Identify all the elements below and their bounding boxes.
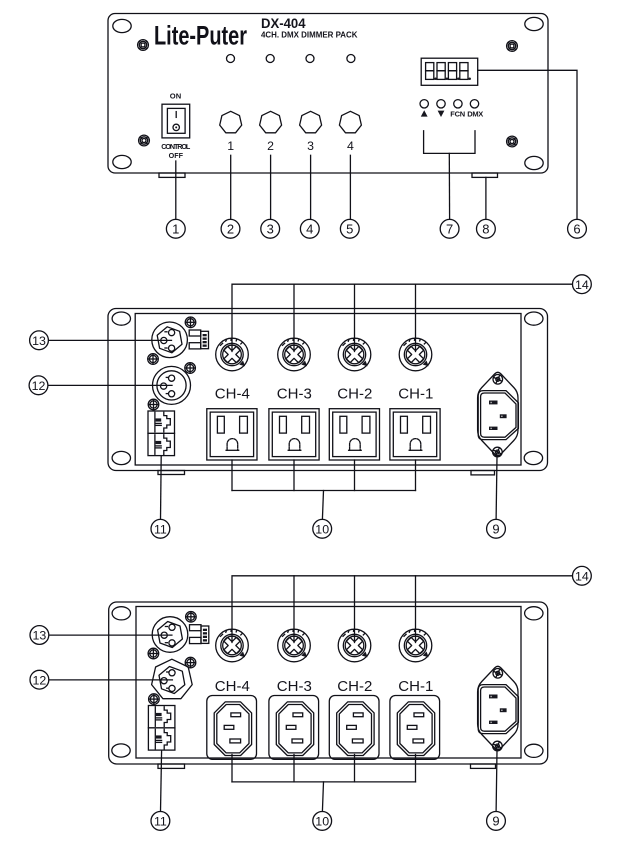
rear right foot tab (471, 764, 496, 768)
svg-text:1: 1 (172, 222, 179, 237)
callout 13 (30, 331, 49, 350)
mounting hole bottom-left (112, 451, 130, 464)
XLR female connector DMX in (152, 659, 193, 699)
svg-text:CH-3: CH-3 (277, 385, 312, 402)
callout 11 (151, 812, 170, 831)
rear left foot tab (158, 764, 185, 768)
callout 10 (313, 519, 332, 538)
svg-text:10: 10 (315, 523, 329, 537)
XLR female screw bottom (149, 694, 160, 705)
mounting hole bottom-right (525, 156, 543, 169)
svg-text:6: 6 (573, 222, 580, 237)
rear panel chassis (NEMA version) (108, 309, 548, 471)
svg-text:9: 9 (492, 814, 499, 829)
front panel left foot tab (159, 173, 185, 177)
channel label CH-2 (337, 678, 372, 695)
DMX terminator block (190, 625, 209, 644)
svg-text:7: 7 (446, 222, 453, 237)
svg-text:14: 14 (575, 570, 589, 584)
fuse F3 (278, 629, 311, 662)
callout 11 (151, 519, 170, 538)
leader line knob 350.4 (349, 155, 351, 219)
push button FCN (454, 100, 462, 108)
channel label CH-2 (337, 385, 372, 402)
svg-text:CH-2: CH-2 (337, 385, 372, 402)
front panel chassis (108, 14, 548, 174)
XLR female connector DMX in (153, 366, 191, 404)
model title DX-404 (261, 16, 306, 31)
knob label 1 (227, 139, 234, 153)
fuse F4 (216, 629, 249, 662)
rear panel recessed face (135, 314, 521, 466)
button group bracket (424, 131, 475, 154)
label triangle up (421, 110, 428, 116)
svg-text:1: 1 (227, 139, 234, 153)
screw top-left (136, 38, 151, 53)
mounting hole top-right (525, 607, 543, 620)
svg-text:2: 2 (227, 222, 234, 237)
XLR male connector DMX out (152, 322, 188, 358)
Lite-Puter logo (154, 21, 247, 51)
svg-text:10: 10 (315, 815, 329, 829)
power switch S1 (162, 104, 190, 138)
callout 3 (261, 219, 280, 238)
svg-text:3: 3 (267, 222, 274, 237)
callout 5 (340, 219, 359, 238)
leader line 8 (485, 177, 487, 219)
label CONTROL (161, 142, 191, 151)
leader line 12 (49, 679, 173, 681)
XLR male connector DMX out (152, 617, 188, 653)
leader line 12 (48, 384, 172, 386)
NEMA outlet CH-1 (390, 409, 440, 460)
DMX terminator block (189, 330, 208, 349)
mounting hole bottom-left (112, 744, 130, 757)
leader line knob 270.6 (270, 155, 272, 219)
fuse F2 (338, 629, 371, 662)
svg-text:4: 4 (306, 222, 313, 237)
svg-text:Lite-Puter: Lite-Puter (154, 21, 247, 51)
7-segment display U1 (421, 58, 478, 85)
svg-text:ON: ON (170, 92, 181, 101)
mounting hole top-left (112, 312, 130, 325)
screw top-right (505, 39, 520, 54)
XLR male screw top (185, 317, 196, 328)
svg-text:13: 13 (33, 629, 47, 643)
svg-text:FCN: FCN (450, 110, 465, 119)
leader line 13 (48, 339, 171, 341)
leader line knob 230.7 (230, 155, 232, 219)
power inlet screw top (492, 668, 503, 679)
svg-text:9: 9 (492, 522, 499, 537)
rear left foot tab (158, 471, 185, 475)
svg-text:CH-4: CH-4 (215, 385, 250, 402)
push button down (437, 100, 445, 108)
label OFF (169, 151, 184, 160)
svg-text:CONTROL: CONTROL (161, 142, 191, 151)
callout 12 (30, 670, 49, 689)
svg-text:8: 8 (482, 222, 489, 237)
dimmer knob 3 (300, 111, 322, 132)
XLR male screw bottom (148, 648, 159, 659)
power inlet (478, 666, 519, 749)
subtitle 4CH. DMX DIMMER PACK (261, 29, 358, 39)
push button up (420, 100, 428, 108)
NEMA outlet CH-4 (207, 409, 257, 460)
channel LED indicator 1 (227, 55, 235, 63)
channel label CH-3 (277, 678, 312, 695)
callout 9 (487, 519, 506, 538)
callout 9 (487, 812, 506, 831)
IEC outlet CH-3 (269, 696, 319, 760)
knob label 3 (307, 139, 314, 153)
NEMA outlet CH-3 (269, 409, 319, 460)
XLR male screw bottom (148, 354, 159, 365)
callout 14 (573, 275, 592, 294)
channel label CH-1 (398, 385, 433, 402)
svg-text:4CH. DMX DIMMER PACK: 4CH. DMX DIMMER PACK (261, 29, 358, 39)
svg-text:3: 3 (307, 139, 314, 153)
mounting hole bottom-right (525, 744, 543, 757)
leader bracket 10 (232, 755, 416, 812)
svg-text:DMX: DMX (467, 110, 483, 119)
label triangle down (438, 111, 445, 117)
svg-text:12: 12 (33, 673, 47, 687)
mounting hole top-right (525, 312, 543, 325)
callout 4 (300, 219, 319, 238)
label DMX (467, 110, 483, 119)
fuse F1 (399, 338, 432, 371)
knob label 2 (267, 139, 274, 153)
channel label CH-1 (398, 678, 433, 695)
XLR female screw top (185, 363, 196, 374)
label FCN (450, 110, 465, 119)
leader line 7 (448, 153, 450, 219)
mounting hole top-left (113, 19, 131, 32)
push button DMX (470, 100, 478, 108)
svg-text:2: 2 (267, 139, 274, 153)
leader line 11 (161, 750, 162, 811)
fuse F4 (216, 338, 249, 371)
svg-text:14: 14 (575, 278, 589, 292)
leader line 6 (478, 70, 577, 219)
channel LED indicator 2 (266, 55, 274, 63)
svg-text:CH-3: CH-3 (277, 678, 312, 695)
IEC outlet CH-4 (207, 696, 257, 760)
rear right foot tab (471, 471, 495, 475)
callout 12 (29, 376, 48, 395)
screw bottom-left (137, 133, 152, 148)
svg-text:12: 12 (32, 379, 46, 393)
XLR female screw top (185, 657, 196, 668)
mounting hole bottom-left (113, 155, 131, 168)
callout 10 (313, 812, 332, 831)
svg-text:CH-2: CH-2 (337, 678, 372, 695)
fuse F3 (278, 338, 311, 371)
svg-text:4: 4 (347, 139, 354, 153)
power inlet screw bottom (492, 446, 503, 457)
channel label CH-3 (277, 385, 312, 402)
svg-text:CH-1: CH-1 (398, 678, 433, 695)
IEC outlet CH-2 (329, 696, 379, 760)
svg-text:11: 11 (154, 815, 167, 829)
callout 6 (568, 219, 587, 238)
leader line 11 (160, 456, 163, 520)
mounting hole bottom-right (524, 451, 542, 464)
XLR male screw top (186, 612, 197, 623)
RJ45 link jacks (148, 706, 175, 751)
power inlet screw top (492, 374, 503, 385)
callout 13 (30, 626, 49, 645)
power inlet (478, 372, 519, 455)
callout 14 (573, 566, 592, 585)
RJ45 link jacks (148, 411, 175, 456)
fuse F1 (399, 629, 432, 662)
leader line 14 (232, 576, 573, 643)
dimmer knob 4 (339, 111, 361, 132)
svg-text:5: 5 (346, 222, 353, 237)
channel LED indicator 3 (306, 55, 314, 63)
screw bottom-right (505, 134, 520, 149)
leader line 13 (49, 634, 172, 636)
XLR female screw bottom (148, 399, 159, 410)
callout 2 (221, 219, 240, 238)
channel label CH-4 (215, 678, 250, 695)
mounting hole top-left (112, 607, 130, 620)
leader line 14 (232, 284, 573, 351)
channel LED indicator 4 (347, 55, 355, 63)
dimmer knob 2 (260, 111, 282, 132)
IEC outlet CH-1 (390, 696, 440, 760)
callout 8 (477, 219, 496, 238)
leader bracket 10 (232, 460, 416, 519)
label ON (170, 92, 181, 101)
fuse F2 (338, 338, 371, 371)
leader line knob 310.6 (310, 155, 312, 219)
svg-text:CH-4: CH-4 (215, 678, 250, 695)
callout 7 (440, 219, 459, 238)
svg-text:OFF: OFF (169, 151, 184, 160)
mounting hole top-right (525, 17, 543, 30)
dimmer knob 1 (220, 111, 242, 132)
channel label CH-4 (215, 385, 250, 402)
leader line 9 (495, 457, 498, 520)
callout 1 (166, 219, 185, 238)
rear panel recessed face (136, 607, 521, 759)
leader line 9 (495, 751, 498, 812)
rear panel chassis (IEC version) (109, 602, 548, 764)
NEMA outlet CH-2 (329, 409, 379, 460)
power inlet screw bottom (492, 740, 503, 751)
front panel right foot tab (472, 173, 498, 177)
leader line 1 (175, 161, 177, 219)
svg-text:CH-1: CH-1 (398, 385, 433, 402)
svg-text:13: 13 (32, 334, 46, 348)
svg-text:11: 11 (154, 523, 167, 537)
knob label 4 (347, 139, 354, 153)
